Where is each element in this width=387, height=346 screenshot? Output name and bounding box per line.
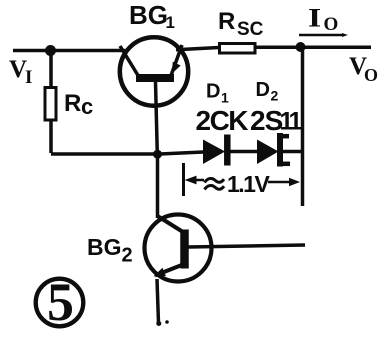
arrow: I_O current direction: [299, 34, 344, 37]
svg-text:2: 2: [122, 245, 133, 267]
svg-text:2S: 2S: [250, 105, 283, 136]
figure number circle 5: [36, 279, 84, 327]
transistor BG1 emitter lead: [171, 45, 182, 76]
wire: V_I input (top-left horizontal): [13, 49, 125, 53]
node: base junction: [153, 150, 162, 159]
node: input junction: [45, 45, 56, 56]
node: output junction: [296, 42, 306, 52]
end dot: [156, 321, 161, 326]
transistor BG2 (circle): [145, 215, 212, 282]
label V_O: [349, 53, 378, 85]
svg-text:I: I: [308, 3, 321, 32]
svg-text:1.1V: 1.1V: [227, 171, 270, 197]
svg-text:D: D: [206, 81, 220, 103]
transistor BG1 (circle): [120, 37, 188, 105]
transistor BG2 emitter lead: [155, 265, 183, 276]
dimension: left arrow: [194, 179, 204, 182]
svg-text:I: I: [25, 67, 32, 88]
wire: Rc bottom to corner: [49, 120, 53, 153]
label Rsc: [218, 8, 264, 40]
resistor Rsc: [220, 44, 256, 54]
label D1: [206, 81, 229, 106]
diode D2: [257, 140, 279, 165]
wire: junction down to Rc: [49, 51, 53, 89]
wire: diode row segments: [231, 150, 259, 154]
wire: output junction down right side: [301, 47, 305, 206]
svg-text:R: R: [64, 90, 81, 117]
label BG1: [129, 0, 175, 32]
svg-text:1: 1: [166, 13, 175, 32]
label V_I: [9, 56, 32, 88]
svg-text:D: D: [256, 79, 270, 101]
label Rc: [64, 90, 93, 119]
svg-text:BG: BG: [129, 0, 168, 30]
dimension: left tick: [182, 163, 185, 196]
wire: BG2 emitter down: [157, 279, 159, 324]
transistor BG1 base bar: [136, 74, 174, 82]
svg-text:2: 2: [271, 88, 279, 104]
label BG2: [87, 234, 133, 267]
diode D1: [203, 140, 225, 165]
transistor BG2 emitter arrow: [154, 268, 166, 277]
transistor BG2 base bar: [180, 230, 189, 269]
transistor BG2 base wire to right: [188, 245, 305, 247]
wire: Rsc to output: [255, 46, 371, 50]
svg-text:R: R: [218, 8, 235, 35]
transistor BG1 collector lead: [120, 46, 139, 77]
wire: main vertical to BG2: [156, 154, 160, 218]
svg-text:5: 5: [47, 272, 74, 332]
svg-text:1: 1: [289, 108, 303, 136]
wire: bottom horizontal to diode row: [51, 152, 203, 154]
label D2: [256, 79, 279, 104]
label I_O: [308, 3, 338, 35]
dimension: right arrow: [268, 181, 291, 184]
svg-text:2CK: 2CK: [196, 105, 249, 136]
transistor BG2 collector lead: [158, 216, 184, 232]
wire: BG1 emitter to Rsc: [176, 48, 219, 50]
wire: BG1 base lead down: [156, 82, 158, 154]
resistor Rc: [45, 88, 56, 121]
svg-text:BG: BG: [87, 234, 122, 260]
svg-text:c: c: [81, 94, 93, 119]
transistor BG1 emitter arrow: [172, 62, 181, 74]
svg-text:1: 1: [221, 90, 229, 106]
svg-text:SC: SC: [237, 19, 264, 40]
label approx symbol: [205, 178, 225, 189]
svg-text:O: O: [364, 65, 378, 85]
svg-text:O: O: [324, 14, 339, 35]
